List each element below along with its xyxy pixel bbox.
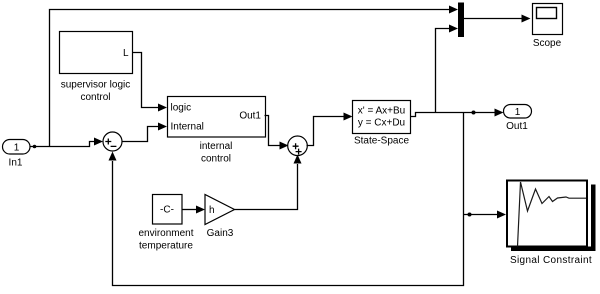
svg-text:Internal: Internal — [171, 121, 204, 132]
arrowhead into Mux input 1 — [449, 6, 458, 14]
wire constant to Gain3 — [182, 209, 197, 211]
arrowhead into Mux input 2 — [449, 25, 458, 33]
arrowhead into State-Space — [344, 113, 353, 121]
wire branch up to Mux input 2 — [436, 29, 451, 113]
sum block Sum1 — [103, 132, 122, 151]
wire internal control Out1 to Sum2 left input — [265, 116, 281, 146]
svg-text:y = Cx+Du: y = Cx+Du — [358, 118, 405, 129]
arrowhead into Sum2 left input — [280, 142, 289, 150]
subsystem block supervisor logic control — [60, 32, 133, 103]
node junction dot before Out1 — [472, 111, 476, 115]
svg-text:1: 1 — [515, 107, 521, 118]
mux Mux — [458, 3, 464, 38]
svg-text:supervisor logic: supervisor logic — [61, 80, 130, 91]
sum block Sum2 — [288, 136, 308, 156]
wire branch from In1 up and across top to Mux input 1 — [50, 10, 451, 147]
svg-text:-C-: -C- — [160, 205, 174, 216]
arrowhead into Scope — [522, 15, 531, 23]
wire Mux output to Scope — [464, 18, 522, 20]
svg-text:control: control — [80, 92, 110, 103]
wire Gain3 output up to Sum2 bottom input — [235, 164, 298, 210]
arrowhead into Sum1 bottom input — [109, 152, 117, 161]
arrowhead into Sum1 left input — [94, 138, 103, 146]
svg-text:logic: logic — [171, 103, 192, 114]
arrowhead into Internal port — [158, 123, 167, 131]
subsystem block internal control — [168, 97, 266, 165]
svg-text:temperature: temperature — [139, 241, 193, 252]
block Signal Constraint with drop shadow — [507, 181, 596, 267]
input port In1 — [3, 140, 31, 169]
svg-text:internal: internal — [200, 141, 233, 152]
constant block environment temperature — [138, 195, 193, 252]
scope block Scope — [533, 4, 563, 50]
node junction dot on Signal Constraint branch — [468, 213, 472, 217]
svg-text:In1: In1 — [9, 157, 23, 168]
wire In1 output with junction dot — [30, 142, 95, 147]
wire State-Space output to Out1 port — [411, 113, 496, 117]
svg-text:Out1: Out1 — [506, 121, 528, 132]
svg-text:x' = Ax+Bu: x' = Ax+Bu — [358, 106, 406, 117]
wire supervisor L output to internal control logic input — [133, 53, 160, 108]
svg-text:Scope: Scope — [533, 38, 562, 49]
svg-text:h: h — [209, 205, 215, 216]
arrowhead into Signal Constraint — [497, 211, 506, 219]
arrowhead into Gain3 — [196, 206, 205, 214]
svg-text:Gain3: Gain3 — [207, 228, 234, 239]
svg-text:Signal Constraint: Signal Constraint — [510, 255, 592, 266]
gain block Gain3 — [205, 195, 235, 240]
svg-text:L: L — [123, 48, 129, 59]
block State-Space — [353, 101, 411, 147]
svg-text:control: control — [201, 154, 231, 165]
svg-text:Out1: Out1 — [239, 111, 261, 122]
wire Sum2 output to State-Space input — [307, 117, 345, 146]
svg-text:State-Space: State-Space — [354, 135, 409, 146]
arrowhead into Out1 port — [495, 109, 504, 117]
wire Sum1 output to internal control Internal input — [122, 127, 159, 142]
arrowhead into logic port — [158, 104, 167, 112]
svg-text:environment: environment — [138, 228, 193, 239]
svg-text:1: 1 — [14, 142, 20, 153]
wire feedback branch down, across bottom, up to Sum1 bottom input — [113, 113, 464, 286]
arrowhead into Sum2 bottom input — [294, 155, 302, 164]
wire branch to Signal Constraint with junction dot — [464, 214, 499, 216]
node junction dot on In1 wire — [33, 145, 37, 149]
output port Out1 — [504, 105, 532, 133]
